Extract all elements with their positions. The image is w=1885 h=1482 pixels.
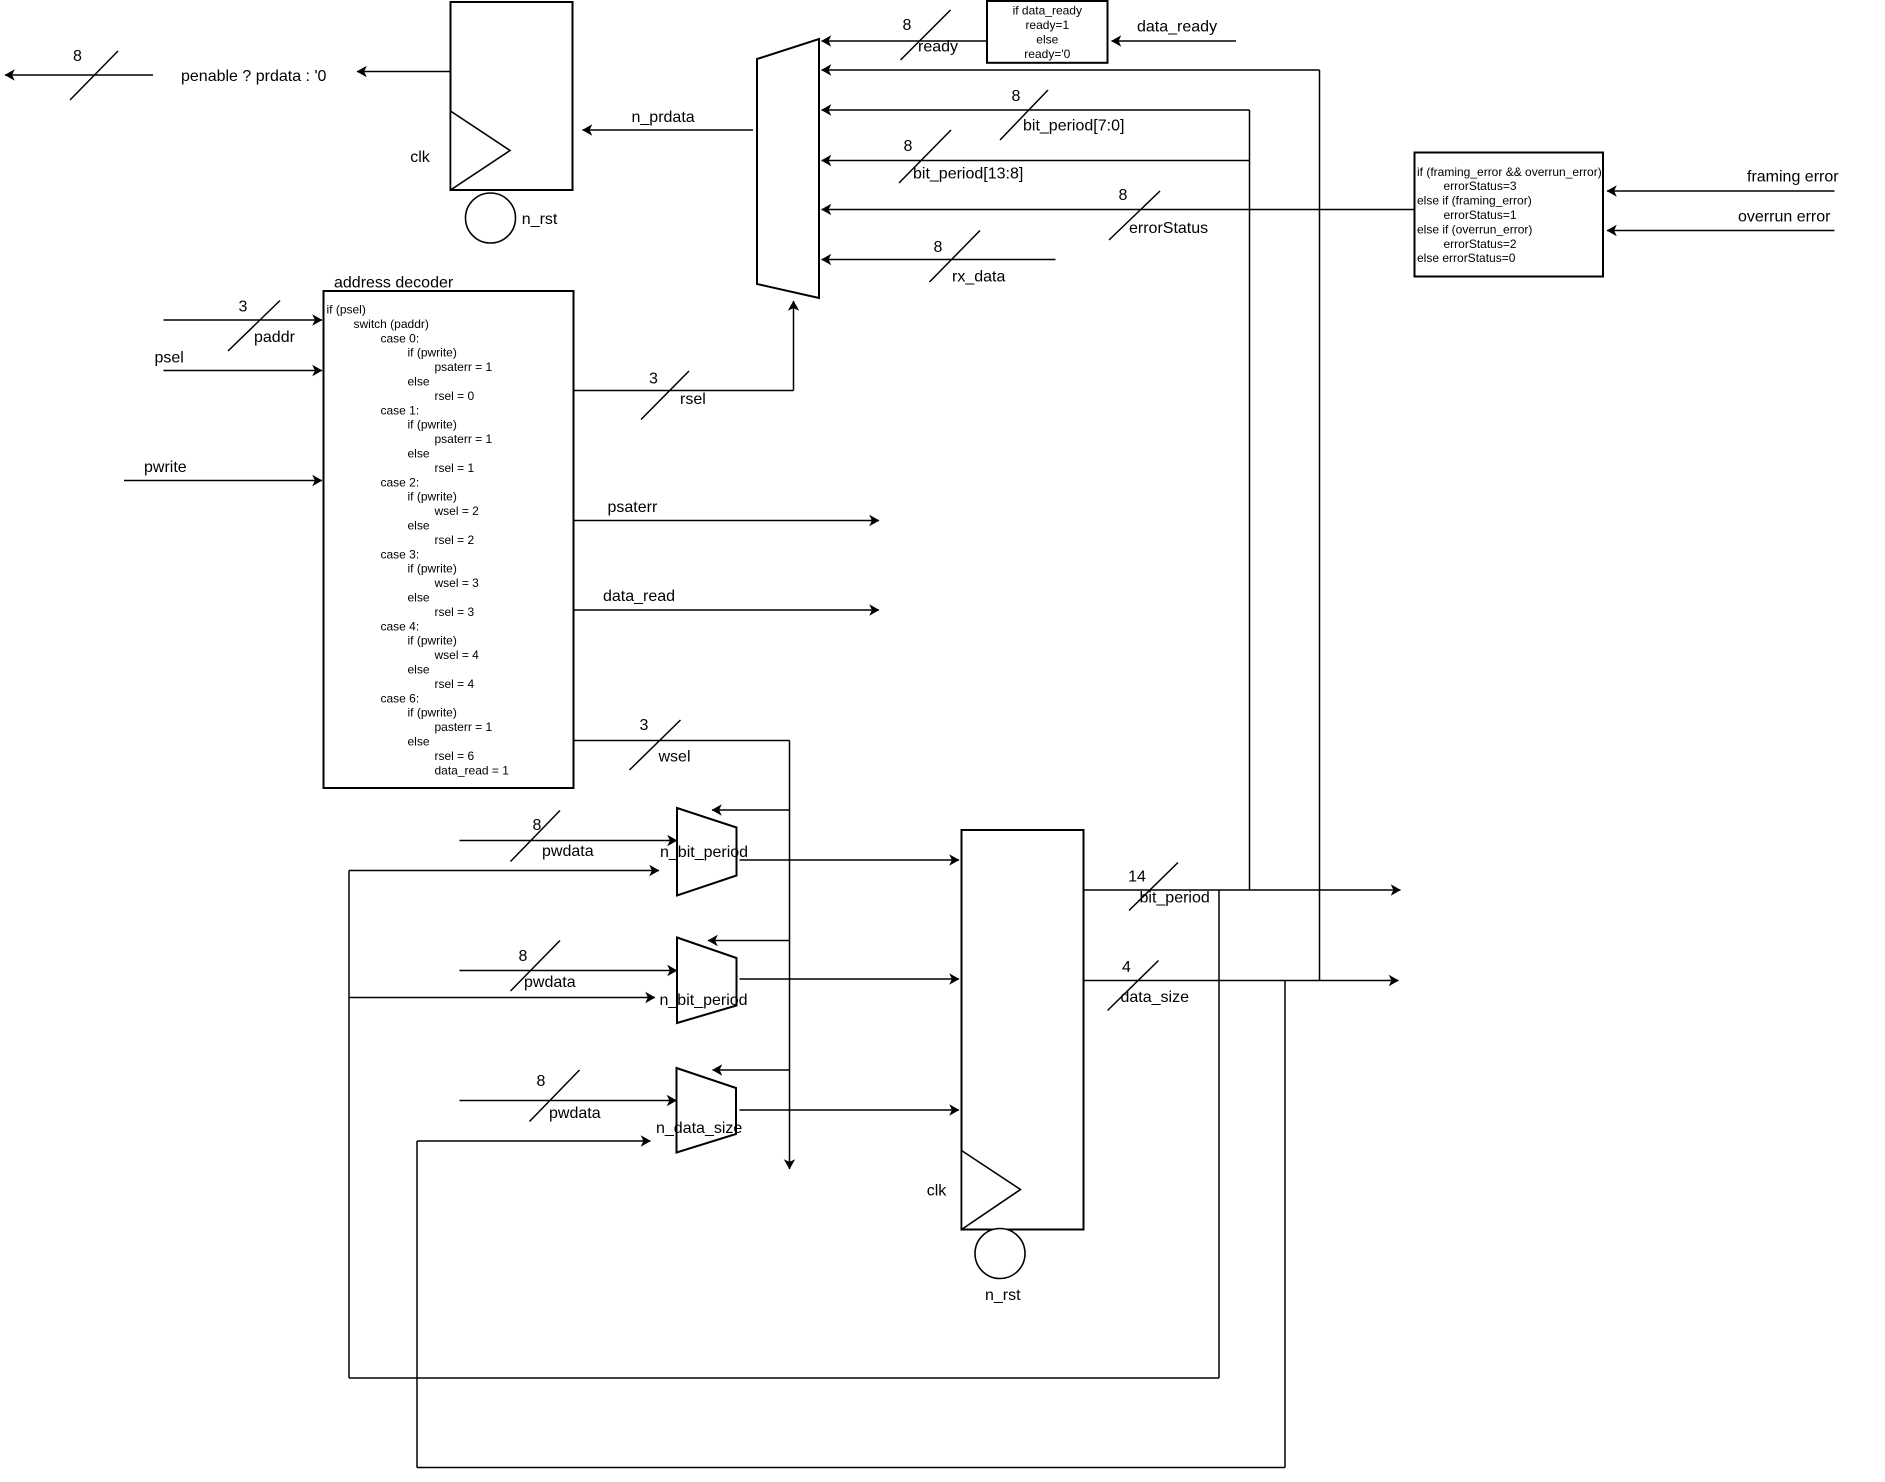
svg-text:clk: clk: [927, 1182, 948, 1199]
svg-text:errorStatus=2: errorStatus=2: [1444, 237, 1517, 251]
bus-width slash on rx_data: [930, 231, 981, 283]
wire errorStatus into mux: [822, 209, 1415, 211]
wire wsel tap into M3 select: [708, 940, 790, 942]
svg-text:penable ? prdata : '0: penable ? prdata : '0: [181, 68, 326, 85]
wire wsel tap into M4 select: [713, 1069, 790, 1071]
svg-text:3: 3: [640, 717, 649, 734]
svg-text:rx_data: rx_data: [952, 268, 1005, 285]
wire vertical data_size to bottom loop: [1284, 981, 1286, 1468]
svg-text:else: else: [408, 735, 430, 749]
wire pwdata into M4: [460, 1100, 677, 1102]
mux M4 n_data_size: [677, 1068, 737, 1153]
svg-text:if (pwrite): if (pwrite): [408, 706, 457, 720]
svg-text:rsel = 1: rsel = 1: [435, 461, 475, 475]
mux M1 read-select mux: [757, 39, 819, 298]
bus-width slash on pwdata M3: [511, 941, 561, 992]
svg-text:rsel = 2: rsel = 2: [435, 533, 475, 547]
register U5 bit_period and data_size register: [962, 830, 1084, 1230]
svg-text:rsel = 6: rsel = 6: [435, 749, 475, 763]
svg-text:case 3:: case 3:: [381, 547, 420, 561]
wire data_size feedback into M4: [417, 1140, 651, 1142]
svg-text:if (psel): if (psel): [327, 303, 366, 317]
wire bit_period[13:8] into mux: [822, 160, 1250, 162]
wire data_size feedback into mux: [822, 69, 1320, 71]
wire rsel horizontal from decoder: [574, 390, 794, 392]
svg-text:pwrite: pwrite: [144, 459, 187, 476]
svg-text:case 2:: case 2:: [381, 475, 420, 489]
svg-text:n_bit_period: n_bit_period: [660, 844, 748, 861]
svg-text:errorStatus=1: errorStatus=1: [1444, 208, 1517, 222]
svg-text:switch (paddr): switch (paddr): [354, 317, 429, 331]
wire vertical bit_period to bottom loop: [1218, 890, 1220, 1378]
svg-text:ready=1: ready=1: [1025, 18, 1069, 32]
svg-text:n_rst: n_rst: [522, 211, 558, 228]
svg-text:case 1:: case 1:: [381, 403, 420, 417]
wire data_ready into U2: [1112, 40, 1237, 42]
svg-text:wsel: wsel: [658, 748, 691, 765]
svg-text:pasterr = 1: pasterr = 1: [435, 720, 493, 734]
wire vertical data_size to mux top: [1319, 70, 1321, 981]
wire paddr into decoder: [164, 319, 323, 321]
svg-text:8: 8: [519, 948, 528, 965]
svg-text:else: else: [408, 447, 430, 461]
svg-text:errorStatus: errorStatus: [1129, 220, 1208, 237]
register U1 prdata output register: [451, 2, 573, 190]
svg-text:3: 3: [239, 298, 248, 315]
bus-width slash on rsel: [641, 371, 689, 420]
svg-text:if (framing_error && overrun_e: if (framing_error && overrun_error): [1417, 165, 1602, 179]
svg-text:case 0:: case 0:: [381, 331, 420, 345]
register U1 n_rst bubble: [466, 193, 516, 243]
svg-text:4: 4: [1122, 959, 1131, 976]
bus-width slash on pwdata M4: [530, 1070, 580, 1122]
svg-text:pwdata: pwdata: [524, 974, 576, 991]
wire rsel vertical into mux select: [793, 301, 795, 391]
wire wsel vertical trunk: [789, 741, 791, 1170]
bus-width slash on wsel: [630, 720, 681, 770]
svg-text:else: else: [1036, 33, 1058, 47]
wire prdata bus output arrow: [5, 74, 153, 76]
wire bit_period feedback into M2: [349, 870, 659, 872]
wire psaterr output: [574, 520, 880, 522]
wire n_prdata from mux to U1: [583, 129, 754, 131]
wire bit_period[7:0] into mux: [822, 109, 1250, 111]
svg-text:data_ready: data_ready: [1137, 18, 1217, 35]
mux M3 n_bit_period high byte: [677, 938, 737, 1024]
wire from register PRDATA to output label: [357, 71, 451, 73]
register U5 clk triangle: [962, 1151, 1021, 1230]
wire data_read output: [574, 609, 880, 611]
logic box U3 errorStatus encoder: [1415, 153, 1604, 277]
svg-text:8: 8: [73, 48, 82, 65]
bus-width slash on bit_period: [1129, 863, 1178, 911]
svg-text:8: 8: [904, 138, 913, 155]
mux M2 n_bit_period low byte: [677, 808, 737, 896]
register U5 n_rst bubble: [975, 1229, 1025, 1279]
bus-width slash on data_size: [1108, 961, 1159, 1011]
svg-text:if (pwrite): if (pwrite): [408, 634, 457, 648]
bus-width slash 8 on prdata output: [70, 51, 118, 100]
wire pwdata into M3: [460, 970, 678, 972]
svg-text:8: 8: [934, 239, 943, 256]
svg-text:case 4:: case 4:: [381, 619, 420, 633]
wire wsel horizontal from decoder: [574, 740, 790, 742]
bus-width slash on errorStatus: [1109, 191, 1160, 240]
wire bit_period feedback into M3: [349, 997, 655, 999]
svg-text:rsel = 3: rsel = 3: [435, 605, 475, 619]
svg-text:ready='0: ready='0: [1024, 47, 1070, 61]
svg-text:data_read: data_read: [603, 588, 675, 605]
logic box U2 ready generator: [987, 1, 1108, 63]
svg-text:else errorStatus=0: else errorStatus=0: [1417, 251, 1516, 265]
wire psel into decoder: [164, 370, 323, 372]
svg-text:bit_period[13:8]: bit_period[13:8]: [913, 165, 1023, 182]
wire bottom loop2 horizontal: [417, 1467, 1285, 1469]
svg-text:if (pwrite): if (pwrite): [408, 346, 457, 360]
svg-text:8: 8: [537, 1073, 546, 1090]
svg-text:else: else: [408, 591, 430, 605]
svg-text:data_size: data_size: [1121, 989, 1190, 1006]
svg-text:rsel: rsel: [680, 391, 706, 408]
svg-text:paddr: paddr: [254, 329, 296, 346]
wire vertical loop2 up to M4 feedback: [416, 1141, 418, 1468]
wire pwdata into M2: [460, 840, 678, 842]
bus-width slash on bit_period[7:0]: [1000, 90, 1048, 140]
wire vertical bit_period to mux top: [1249, 110, 1251, 890]
wire pwrite into decoder: [124, 480, 322, 482]
bus-width slash on paddr: [228, 301, 280, 352]
svg-text:else: else: [408, 663, 430, 677]
svg-text:errorStatus=3: errorStatus=3: [1444, 179, 1517, 193]
svg-text:n_prdata: n_prdata: [632, 109, 695, 126]
wire overrun error into U3: [1607, 230, 1835, 232]
svg-text:n_bit_period: n_bit_period: [660, 992, 748, 1009]
svg-text:wsel = 2: wsel = 2: [434, 504, 480, 518]
svg-text:else if (framing_error): else if (framing_error): [1417, 194, 1532, 208]
svg-text:psaterr: psaterr: [608, 499, 658, 516]
svg-text:14: 14: [1128, 868, 1146, 885]
wire bottom loop1 horizontal: [349, 1377, 1219, 1379]
svg-text:bit_period: bit_period: [1140, 889, 1210, 906]
wire M4 output to register: [740, 1109, 960, 1111]
svg-text:if (pwrite): if (pwrite): [408, 490, 457, 504]
wire wsel tap into M2 select: [712, 809, 790, 811]
svg-text:if data_ready: if data_ready: [1013, 4, 1082, 18]
svg-text:wsel = 4: wsel = 4: [434, 648, 480, 662]
svg-text:rsel = 4: rsel = 4: [435, 677, 475, 691]
wire ready into mux: [822, 40, 988, 42]
wire M2 output to register: [740, 859, 960, 861]
wire data_size output: [1084, 980, 1399, 982]
svg-text:8: 8: [903, 17, 912, 34]
register U1 clk triangle: [451, 111, 511, 190]
wire framing error into U3: [1607, 190, 1835, 192]
svg-text:case 6:: case 6:: [381, 691, 420, 705]
wire rx_data into mux: [822, 259, 1056, 261]
svg-text:pwdata: pwdata: [549, 1105, 601, 1122]
svg-text:n_data_size: n_data_size: [656, 1120, 742, 1137]
svg-text:bit_period[7:0]: bit_period[7:0]: [1023, 117, 1124, 134]
svg-text:overrun error: overrun error: [1738, 208, 1831, 225]
svg-text:address decoder: address decoder: [334, 274, 454, 291]
svg-text:psaterr = 1: psaterr = 1: [435, 360, 493, 374]
svg-text:psel: psel: [155, 349, 184, 366]
svg-text:rsel = 0: rsel = 0: [435, 389, 475, 403]
svg-text:else if (overrun_error): else if (overrun_error): [1417, 222, 1532, 236]
svg-text:3: 3: [649, 370, 658, 387]
bus-width slash on ready: [901, 10, 951, 60]
bus-width slash on bit_period[13:8]: [899, 130, 951, 183]
svg-text:data_read = 1: data_read = 1: [435, 763, 510, 777]
logic box U4 address decoder: [324, 291, 574, 788]
svg-text:ready: ready: [918, 38, 958, 55]
svg-text:pwdata: pwdata: [542, 843, 594, 860]
svg-text:8: 8: [1119, 187, 1128, 204]
svg-text:framing error: framing error: [1747, 168, 1839, 185]
svg-text:8: 8: [1012, 88, 1021, 105]
bus-width slash on pwdata M2: [511, 811, 561, 862]
svg-text:else: else: [408, 375, 430, 389]
svg-text:clk: clk: [410, 149, 431, 166]
wire vertical loop1 up to mux feedback: [348, 871, 350, 1379]
wire bit_period output: [1084, 889, 1401, 891]
svg-text:n_rst: n_rst: [985, 1287, 1021, 1304]
svg-text:if (pwrite): if (pwrite): [408, 418, 457, 432]
svg-text:else: else: [408, 519, 430, 533]
svg-text:wsel = 3: wsel = 3: [434, 576, 480, 590]
svg-text:if (pwrite): if (pwrite): [408, 562, 457, 576]
svg-text:psaterr = 1: psaterr = 1: [435, 432, 493, 446]
wire M3 output to register: [740, 978, 960, 980]
